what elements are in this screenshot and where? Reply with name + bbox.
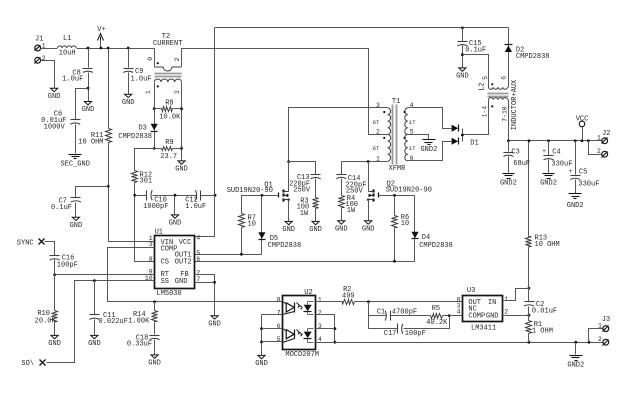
svg-text:R5: R5 bbox=[432, 305, 440, 313]
svg-text:GND: GND bbox=[48, 93, 61, 101]
svg-text:2: 2 bbox=[42, 55, 46, 62]
svg-text:301: 301 bbox=[140, 177, 153, 185]
svg-text:R9: R9 bbox=[165, 139, 173, 147]
svg-text:250V: 250V bbox=[293, 187, 311, 195]
svg-text:5: 5 bbox=[277, 336, 281, 343]
svg-text:6T: 6T bbox=[373, 119, 380, 126]
svg-text:10: 10 bbox=[401, 220, 409, 228]
svg-text:1000V: 1000V bbox=[44, 123, 66, 131]
svg-text:GND: GND bbox=[169, 220, 182, 228]
svg-text:499: 499 bbox=[342, 292, 355, 300]
svg-text:7-10: 7-10 bbox=[502, 106, 509, 122]
svg-text:10: 10 bbox=[248, 220, 256, 228]
svg-text:GND: GND bbox=[175, 278, 188, 286]
svg-text:SUD19N20-90: SUD19N20-90 bbox=[386, 186, 432, 194]
svg-text:0: 0 bbox=[147, 57, 154, 61]
svg-text:C3: C3 bbox=[511, 148, 519, 156]
svg-text:100pF: 100pF bbox=[405, 330, 426, 338]
svg-text:2: 2 bbox=[318, 310, 322, 317]
svg-text:CMPD2838: CMPD2838 bbox=[516, 53, 550, 61]
svg-text:CMPD2838: CMPD2838 bbox=[118, 133, 152, 141]
svg-text:100pF: 100pF bbox=[57, 262, 78, 270]
svg-text:D1: D1 bbox=[470, 139, 478, 147]
svg-text:+: + bbox=[569, 168, 573, 175]
svg-text:7: 7 bbox=[277, 310, 281, 317]
svg-text:XFMR: XFMR bbox=[389, 165, 407, 173]
svg-text:10.0K: 10.0K bbox=[159, 114, 181, 122]
svg-text:0.33uF: 0.33uF bbox=[127, 341, 152, 349]
svg-text:4700pF: 4700pF bbox=[392, 308, 417, 316]
svg-text:10 OHM: 10 OHM bbox=[78, 138, 103, 146]
svg-text:20.0K: 20.0K bbox=[35, 318, 57, 326]
svg-text:GND: GND bbox=[282, 226, 295, 234]
svg-text:CMPD2838: CMPD2838 bbox=[419, 242, 453, 250]
svg-text:1.0uF: 1.0uF bbox=[131, 75, 152, 83]
svg-text:5: 5 bbox=[482, 76, 489, 80]
svg-text:+: + bbox=[542, 148, 546, 155]
svg-text:GND: GND bbox=[309, 226, 322, 234]
svg-text:GND: GND bbox=[48, 340, 61, 348]
svg-text:7: 7 bbox=[196, 276, 200, 283]
svg-text:U3: U3 bbox=[467, 287, 475, 295]
svg-text:3: 3 bbox=[149, 241, 153, 248]
svg-text:330uF: 330uF bbox=[578, 181, 599, 189]
svg-text:0.022uF: 0.022uF bbox=[99, 318, 128, 326]
svg-text:4: 4 bbox=[196, 235, 200, 242]
svg-text:1T: 1T bbox=[409, 119, 416, 126]
svg-text:J3: J3 bbox=[602, 316, 610, 324]
svg-text:GND: GND bbox=[255, 360, 268, 368]
svg-text:1: 1 bbox=[504, 296, 508, 303]
svg-text:2: 2 bbox=[376, 128, 380, 135]
svg-text:8: 8 bbox=[277, 296, 281, 303]
svg-text:4: 4 bbox=[457, 309, 461, 316]
svg-text:CMPD2838: CMPD2838 bbox=[268, 242, 302, 250]
svg-text:GND: GND bbox=[175, 166, 188, 174]
svg-text:8: 8 bbox=[149, 256, 153, 263]
svg-text:1T: 1T bbox=[409, 145, 416, 152]
svg-text:1: 1 bbox=[145, 90, 152, 94]
svg-text:1000pF: 1000pF bbox=[143, 203, 168, 211]
svg-text:L2: L2 bbox=[478, 82, 486, 90]
svg-text:0.1uF: 0.1uF bbox=[51, 204, 72, 212]
svg-text:GND: GND bbox=[148, 360, 161, 368]
svg-text:VCC: VCC bbox=[179, 239, 192, 247]
svg-text:GND: GND bbox=[122, 99, 135, 107]
svg-text:GND: GND bbox=[335, 225, 348, 233]
svg-text:GND: GND bbox=[88, 340, 101, 348]
svg-text:V+: V+ bbox=[97, 26, 105, 34]
svg-text:68uF: 68uF bbox=[513, 160, 530, 168]
svg-text:GND: GND bbox=[486, 313, 499, 321]
svg-text:0.1uF: 0.1uF bbox=[465, 46, 486, 54]
svg-text:GND: GND bbox=[208, 320, 221, 328]
svg-text:CS: CS bbox=[161, 258, 169, 266]
svg-text:1 OHM: 1 OHM bbox=[532, 328, 553, 336]
svg-text:1: 1 bbox=[598, 323, 602, 330]
svg-text:U1: U1 bbox=[155, 229, 163, 237]
svg-text:C1: C1 bbox=[377, 309, 385, 317]
svg-text:IN: IN bbox=[488, 299, 496, 307]
svg-text:VCC: VCC bbox=[576, 116, 589, 124]
svg-text:GND: GND bbox=[362, 225, 375, 233]
svg-text:1.00K: 1.00K bbox=[128, 317, 150, 325]
svg-text:GND2: GND2 bbox=[540, 180, 557, 188]
svg-text:GND: GND bbox=[456, 73, 469, 81]
svg-text:6T: 6T bbox=[373, 145, 380, 152]
svg-text:10uH: 10uH bbox=[59, 50, 76, 58]
svg-text:40.2K: 40.2K bbox=[426, 319, 448, 327]
svg-text:2: 2 bbox=[174, 57, 181, 61]
svg-text:LM3411: LM3411 bbox=[471, 324, 496, 332]
svg-text:INDUCTOR+AUX: INDUCTOR+AUX bbox=[511, 79, 519, 130]
svg-text:GND2: GND2 bbox=[567, 202, 584, 210]
svg-text:OUT2: OUT2 bbox=[175, 258, 192, 266]
svg-text:GND2: GND2 bbox=[420, 146, 437, 154]
svg-text:J2: J2 bbox=[602, 130, 610, 138]
svg-text:0.01uF: 0.01uF bbox=[532, 307, 557, 315]
svg-text:2: 2 bbox=[597, 148, 601, 155]
svg-text:SO\: SO\ bbox=[21, 360, 34, 368]
svg-text:2: 2 bbox=[598, 336, 602, 343]
svg-text:U2: U2 bbox=[304, 289, 312, 297]
svg-text:C5: C5 bbox=[579, 168, 587, 176]
svg-text:SUD19N20-90: SUD19N20-90 bbox=[227, 187, 273, 195]
svg-text:GND: GND bbox=[70, 222, 83, 230]
svg-text:SEC_GND: SEC_GND bbox=[60, 160, 89, 168]
svg-text:GND2: GND2 bbox=[567, 362, 584, 370]
svg-text:GND: GND bbox=[82, 106, 95, 114]
svg-text:R8: R8 bbox=[165, 99, 173, 107]
svg-text:C17: C17 bbox=[384, 330, 397, 338]
svg-text:10 OHM: 10 OHM bbox=[535, 241, 560, 249]
svg-text:3: 3 bbox=[174, 90, 181, 94]
svg-text:1: 1 bbox=[597, 135, 601, 142]
svg-text:1.0uF: 1.0uF bbox=[62, 76, 83, 84]
svg-text:GND2: GND2 bbox=[500, 180, 517, 188]
svg-text:SYNC: SYNC bbox=[17, 239, 34, 247]
svg-text:6: 6 bbox=[501, 76, 508, 80]
svg-text:2: 2 bbox=[504, 309, 508, 316]
svg-text:1W: 1W bbox=[300, 210, 309, 218]
svg-text:CURRENT: CURRENT bbox=[153, 40, 182, 48]
svg-text:L1: L1 bbox=[63, 35, 71, 43]
svg-text:1.0uF: 1.0uF bbox=[185, 203, 206, 211]
svg-text:23.7: 23.7 bbox=[160, 153, 177, 161]
svg-text:1W: 1W bbox=[347, 207, 356, 215]
svg-text:COMP: COMP bbox=[468, 313, 485, 321]
svg-text:1: 1 bbox=[318, 296, 322, 303]
svg-text:LM5030: LM5030 bbox=[157, 290, 182, 298]
svg-text:SS: SS bbox=[161, 278, 169, 286]
svg-text:1-4: 1-4 bbox=[481, 106, 488, 118]
svg-text:C4: C4 bbox=[552, 148, 560, 156]
svg-text:D3: D3 bbox=[138, 125, 146, 133]
svg-text:MOCD207M: MOCD207M bbox=[285, 351, 319, 359]
svg-text:6: 6 bbox=[196, 256, 200, 263]
